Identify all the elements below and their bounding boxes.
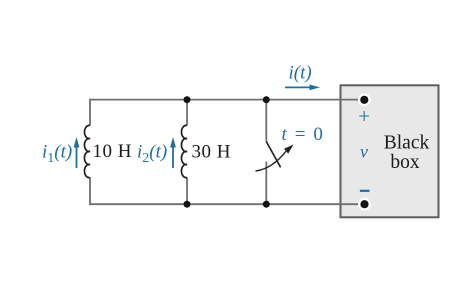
switch SW1 blade: [266, 142, 280, 168]
inductor L2 coil: [181, 125, 187, 177]
svg-text:i2(t): i2(t): [137, 142, 167, 167]
wire switch bottom pigtail: [265, 162, 267, 205]
node junction top switch: [263, 96, 270, 103]
terminal dot bottom: [360, 200, 368, 208]
label minus terminal: [360, 190, 370, 192]
wire 30H branch top segment: [186, 100, 188, 126]
node junction bottom 30H: [184, 201, 191, 208]
wire left rail bottom segment: [89, 177, 91, 205]
svg-text:30 H: 30 H: [192, 142, 231, 163]
terminal halo top: [358, 93, 371, 106]
terminal halo bottom: [358, 198, 371, 211]
switch SW1 motion arc: [256, 151, 287, 171]
node junction bottom switch: [263, 201, 270, 208]
svg-text:Black: Black: [384, 132, 430, 153]
svg-text:10 H: 10 H: [93, 141, 132, 162]
svg-text:+: +: [358, 104, 370, 128]
wire switch top pigtail: [265, 100, 267, 142]
black box U1: [341, 85, 439, 217]
wire 30H branch bottom segment: [186, 177, 188, 204]
wire bottom rail: [90, 203, 365, 205]
current arrow i2: [170, 137, 176, 168]
switch SW1 arc arrowhead: [284, 145, 294, 154]
current arrow i(t): [285, 85, 320, 91]
wire left rail top segment: [89, 99, 91, 126]
svg-text:t = 0: t = 0: [282, 124, 325, 145]
svg-text:box: box: [390, 152, 420, 173]
svg-text:v: v: [360, 142, 368, 162]
node junction top 30H: [184, 96, 191, 103]
svg-text:i1(t): i1(t): [42, 142, 72, 167]
terminal dot top: [360, 96, 368, 104]
wire top rail: [90, 99, 364, 101]
svg-text:i(t): i(t): [289, 63, 312, 84]
inductor L1 coil: [84, 125, 90, 177]
current arrow i1: [74, 137, 80, 168]
